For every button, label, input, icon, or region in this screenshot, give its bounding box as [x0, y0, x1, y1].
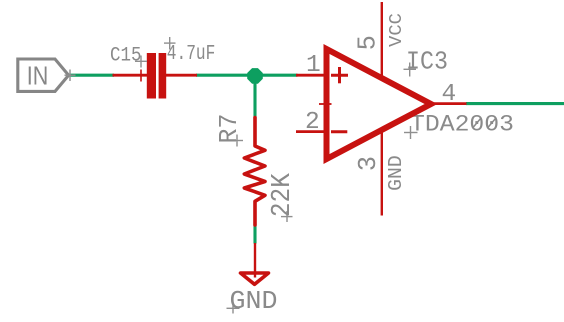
svg-text:GND: GND: [230, 286, 278, 316]
svg-text:R7: R7: [214, 113, 244, 143]
svg-text:5: 5: [354, 35, 383, 50]
svg-text:2: 2: [305, 109, 320, 136]
svg-text:TDA2003: TDA2003: [410, 111, 514, 137]
svg-text:GND: GND: [385, 155, 407, 191]
svg-text:1: 1: [306, 52, 321, 79]
svg-text:22K: 22K: [267, 173, 297, 217]
svg-text:C15: C15: [110, 45, 142, 68]
svg-text:IC3: IC3: [406, 47, 448, 77]
svg-text:IN: IN: [27, 60, 49, 90]
svg-text:VCC: VCC: [385, 13, 407, 47]
svg-text:3: 3: [354, 156, 383, 171]
svg-text:4.7uF: 4.7uF: [167, 43, 216, 66]
svg-text:4: 4: [442, 81, 457, 108]
